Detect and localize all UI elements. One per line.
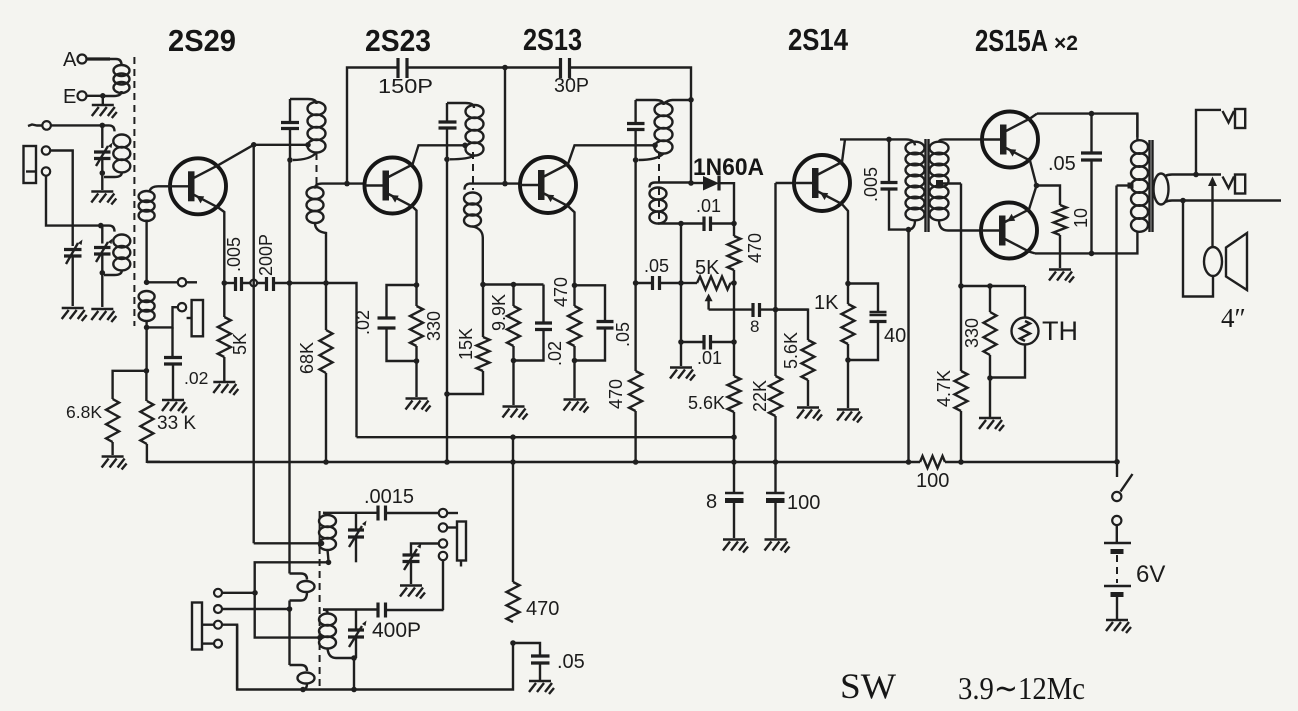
thermistor TH [1024, 286, 1026, 318]
node .01L left [678, 339, 684, 345]
capacitor .01 upper [681, 222, 704, 224]
IFT2 primary coil [466, 105, 484, 118]
emitter rail wire [224, 282, 235, 284]
node base coil tap [144, 280, 150, 286]
ground 5K [213, 382, 238, 395]
wire collector node [251, 142, 257, 148]
IFT1 top wire [290, 99, 317, 104]
resistor 22K [774, 310, 776, 376]
ground 100uF [765, 540, 790, 553]
trimmer capacitor on L3 [101, 226, 103, 244]
node .05 bottom [1089, 251, 1095, 257]
node 330 bottom [987, 375, 993, 381]
capacitor 8 coupling [753, 303, 760, 317]
node link to bottom bus [300, 687, 306, 693]
node pot right [731, 280, 737, 286]
node 15K top [480, 282, 486, 288]
transistor Q1 2S29 [170, 158, 226, 214]
wire 5K to ground [223, 357, 225, 381]
IFT3 top wire [636, 100, 664, 105]
svg-text:330: 330 [424, 311, 444, 341]
IFT3 secondary coil [650, 183, 656, 188]
mixer coil L3 [101, 226, 115, 232]
wire A corner into osc coil [254, 542, 322, 544]
resistor 5.6K (base) [776, 310, 809, 340]
node bus 470 [633, 459, 639, 465]
T1 core [926, 139, 929, 232]
IFT2 core dashed [472, 152, 474, 190]
wire battery to ground [1116, 597, 1118, 619]
node emitter 2S23 [414, 282, 420, 288]
resistor 4.7K [960, 286, 962, 371]
resistor 10 [1054, 205, 1067, 235]
bottom return bus [237, 625, 513, 690]
svg-text:.05: .05 [613, 322, 633, 347]
capacitor 40 bypass [848, 284, 878, 313]
wire 22K to bus [774, 416, 776, 462]
node tap line [958, 283, 964, 289]
resistor 470 (AGC feed) [629, 371, 642, 411]
svg-text:.02: .02 [545, 341, 565, 366]
node 330 bottom [414, 358, 420, 364]
node rail joint [688, 97, 694, 103]
node T1 bottom [906, 227, 912, 233]
osc switch wafer right [457, 522, 466, 561]
vertical B IFT1 to oscillator [288, 160, 290, 574]
svg-text:.01: .01 [696, 196, 721, 216]
bus wire left [147, 461, 920, 463]
svg-text:8: 8 [706, 491, 717, 513]
IFT2 top wire [447, 103, 474, 108]
node L5 bottom [351, 655, 357, 661]
wire to 6.8K [113, 371, 147, 399]
wire 5.6K to ground [807, 380, 809, 406]
RF coil L2 [109, 125, 115, 131]
secondary top lead [1165, 175, 1221, 177]
node bus 4.7K [958, 459, 964, 465]
node 30P drop at base [502, 181, 508, 187]
node L2 bottom [100, 170, 106, 176]
switch contact circle B3 [214, 621, 222, 629]
svg-text:4.7K: 4.7K [934, 370, 954, 407]
svg-text:×2: ×2 [1054, 32, 1078, 55]
wire load col down [733, 283, 735, 376]
node AVC [678, 280, 684, 286]
wire 10 to ground [1059, 235, 1061, 268]
wire coil bottom to bias node [145, 320, 147, 327]
lower AVC rail [357, 436, 735, 438]
emitter rail corner to lower rail [326, 283, 357, 437]
capacitor .05 output [1090, 114, 1092, 153]
node rail end [731, 434, 737, 440]
transistor Q3 2S13 [520, 157, 576, 213]
wire 4.7K to bus [960, 411, 962, 462]
wire 2S15A bases [958, 138, 982, 140]
wire 470 to bus [634, 411, 636, 462]
osc dashed core [319, 511, 321, 689]
node .01L right [731, 339, 737, 345]
node L5 to bottom bus [351, 687, 357, 693]
capacitor .02 (2S23 emitter) [387, 285, 417, 318]
IFT2 left leg with cap [446, 103, 448, 159]
resistor 5.6K (det) [728, 376, 741, 412]
connector coil to junction [450, 156, 475, 160]
svg-text:150P: 150P [378, 76, 433, 98]
node 9.9K bottom [511, 358, 517, 364]
IFT3 core dashed [658, 152, 660, 222]
transistor Q2 2S23 [365, 158, 421, 214]
ground .02 [162, 400, 187, 413]
jack contact circle 1 [42, 146, 50, 154]
node IFT2 junction [444, 157, 450, 163]
T2 center tap [1128, 183, 1134, 189]
diode D1 1N60A [691, 182, 703, 184]
T1 primary lead bottom [908, 220, 915, 229]
node RF input [100, 123, 106, 129]
svg-text:470: 470 [606, 379, 626, 409]
svg-text:2S15A: 2S15A [975, 23, 1048, 58]
svg-text:15K: 15K [456, 328, 476, 360]
feedback link loop 2 [290, 665, 308, 671]
wire collector to IFT1 [218, 145, 254, 166]
node 470 osc [510, 640, 516, 646]
svg-text:5.6K: 5.6K [688, 393, 725, 413]
wire 330 junction [989, 355, 991, 417]
ground 330 [406, 399, 431, 412]
capacitor 30P [561, 58, 570, 78]
node 68K top [323, 280, 329, 286]
pot wiper arrow [707, 298, 709, 310]
resistor 470 detector load [733, 224, 735, 237]
osc tuning gang [411, 544, 439, 556]
svg-text:.02: .02 [184, 368, 208, 388]
phone jack J1 [24, 146, 37, 183]
capacitor .02 (2S13 base) [542, 285, 544, 324]
capacitor .05 coupling [636, 282, 653, 284]
svg-text:100: 100 [916, 470, 949, 492]
wire IFT3 leg down [634, 160, 636, 371]
switch contact circle B2 [214, 605, 222, 613]
emitters join [1029, 161, 1037, 210]
ground 5.6K [797, 408, 822, 421]
svg-text:33 K: 33 K [157, 413, 196, 434]
switch contact circle S1b [178, 303, 186, 311]
node IFT1 junction [287, 157, 293, 163]
wire top rail left [347, 68, 398, 184]
node bus IFT2 [444, 459, 450, 465]
wire L4 bottom left [255, 562, 329, 637]
ground osc gang [400, 586, 425, 599]
wire lead-in to RF coil [51, 124, 109, 126]
node phones upper [1193, 172, 1199, 178]
svg-text:.005: .005 [861, 167, 881, 202]
earphone jack lower [1223, 177, 1235, 189]
wire to switch circle2 [222, 608, 290, 610]
node bus 68K [323, 459, 329, 465]
node emitters [1034, 183, 1040, 189]
ground 470 [564, 400, 589, 413]
IFT1 core dashed [316, 153, 318, 186]
T1 secondary winding [930, 142, 949, 155]
node .005 drop [886, 137, 892, 143]
IFT3 primary coil [655, 103, 673, 116]
switch wafer B [192, 603, 202, 650]
svg-text:.0015: .0015 [364, 486, 414, 508]
svg-text:.05: .05 [644, 256, 669, 276]
wire center tap down [960, 184, 962, 287]
potentiometer 5K volume [681, 282, 697, 284]
T2 primary winding [1131, 140, 1148, 154]
wire to ground L2 [101, 173, 103, 190]
T1 secondary lead top [939, 139, 958, 141]
wire jack c1 to tuning cap [50, 151, 72, 247]
wire emitters to 10 ohm [1037, 186, 1061, 206]
node L3 bottom [100, 270, 106, 276]
IFT3 left leg with cap [634, 100, 636, 160]
base coil upper (osc/ant secondary) [150, 186, 159, 191]
electrolytic 8uF [733, 462, 735, 493]
svg-text:1N60A: 1N60A [693, 154, 764, 181]
resistor 6.8K [106, 399, 119, 442]
ground tuning cap [62, 308, 87, 321]
node diode load top [731, 221, 737, 227]
resistor 33K [145, 371, 147, 401]
wire secondary to 2S13 base [469, 182, 520, 184]
switch contact circle B4 [214, 640, 222, 648]
node emitter [222, 280, 228, 286]
feedback link loop 1 [290, 574, 308, 580]
svg-text:5.6K: 5.6K [781, 332, 801, 369]
wire rail right [570, 68, 692, 100]
node mixer coil top [98, 223, 104, 229]
speaker voice coil [1204, 247, 1222, 276]
wire secondary bottom down [482, 238, 484, 285]
transistor Q6 2S15A lower [981, 203, 1037, 259]
ground .05 osc [529, 681, 554, 694]
resistor 1K [847, 284, 849, 305]
svg-text:.05: .05 [1048, 153, 1076, 175]
svg-text:68K: 68K [297, 342, 317, 374]
crossing marker osc line [250, 280, 257, 287]
wire cap to base node [760, 308, 809, 310]
wire 5.6K to AVC rail [733, 412, 735, 462]
node collector at coil [652, 143, 658, 149]
switch contact circle B1 [214, 589, 222, 597]
node at IFT3 leg [633, 280, 639, 286]
svg-text:100: 100 [787, 492, 820, 514]
node L4 bottom [326, 560, 332, 566]
IFT2 secondary coil [465, 184, 470, 190]
wire to switch contact S1b [147, 307, 178, 327]
transistor Q5 2S15A upper [982, 112, 1038, 168]
node rail to bus link [510, 434, 516, 440]
node bus 100uF [773, 459, 779, 465]
svg-text:22K: 22K [750, 380, 770, 412]
wire secondary top to diode node [655, 181, 691, 183]
capacitor .005 driver [888, 139, 890, 182]
node 470 bottom [572, 358, 578, 364]
svg-text:E: E [63, 86, 76, 108]
node speaker return [1180, 198, 1186, 204]
collector line to coil [254, 144, 308, 146]
svg-text:2S14: 2S14 [788, 22, 849, 57]
node osc coil tap [319, 541, 325, 547]
T1 secondary lead bottom [939, 220, 958, 230]
osc coil L4 [323, 513, 328, 516]
wire tap line to TH [961, 285, 1025, 287]
ground at E [92, 105, 117, 118]
wire to upper jack [1196, 110, 1221, 175]
IFT1 primary coil [308, 102, 326, 115]
node circle1 link [252, 590, 258, 596]
ground L2 [91, 192, 116, 205]
speaker cone [1226, 233, 1247, 290]
svg-text:9.9K: 9.9K [489, 294, 509, 331]
connector coil to junction [293, 153, 317, 161]
wire circle3 down to bottom bus [222, 625, 237, 690]
wire speaker return [1183, 201, 1213, 297]
wire base divider top [483, 283, 544, 285]
osc switch circles right [439, 509, 447, 517]
svg-text:470: 470 [745, 233, 765, 263]
wire diode to load [719, 183, 734, 223]
wire 1K to ground [847, 344, 849, 408]
wire to ground 470 [573, 346, 575, 398]
wire circle4 to 400P line [442, 560, 444, 610]
antenna lead-in wire [28, 125, 42, 127]
node IFT3 junction [633, 157, 639, 163]
wire to ground 9.9K [512, 346, 514, 405]
capacitor .05 (2S13 emitter) [575, 285, 606, 321]
node 2S14 base divider [773, 307, 779, 313]
node at vertical B [287, 280, 293, 286]
svg-text:470: 470 [551, 277, 571, 307]
wire drop to 2S13 base [504, 68, 506, 184]
ground 10 [1049, 270, 1074, 283]
wire IFT2 leg down to bus [446, 159, 448, 462]
node 9.9K top [511, 282, 517, 288]
IFT1 left leg with cap [289, 99, 291, 160]
svg-text:2S13: 2S13 [523, 22, 582, 57]
ground 1K [837, 410, 862, 423]
svg-text:5K: 5K [230, 333, 250, 355]
node coil bottom [144, 325, 150, 331]
ground 9.9K [503, 407, 528, 420]
transistor Q4 2S14 [794, 155, 850, 211]
wire emitter down [413, 207, 417, 285]
IFT1 secondary coil [315, 184, 322, 189]
node .01 left [678, 221, 684, 227]
T2 core [1150, 140, 1153, 232]
wire collector to transformer [842, 139, 845, 162]
wafer tick to B4 [202, 642, 214, 644]
capacitor .02 (2S29 base) [171, 327, 173, 357]
capacitor .005 (emitter) [236, 277, 242, 291]
top rail to output transformer [1037, 114, 1137, 137]
wire collector to top rail [1030, 114, 1037, 119]
wire to switch circle1 [222, 592, 255, 594]
wire bias node down [145, 327, 147, 370]
T1 primary winding [906, 142, 925, 155]
capacitor IFT2 [439, 122, 457, 128]
svg-text:330: 330 [962, 318, 982, 348]
wire collector to IFT3 [568, 145, 655, 164]
battery 6V [1104, 542, 1131, 544]
node 150P drop [344, 181, 350, 187]
wire emitter down [568, 206, 575, 285]
tuning gang capacitor [64, 250, 82, 257]
svg-text:A: A [63, 49, 77, 71]
node bus osc [510, 459, 516, 465]
ground TH [979, 418, 1004, 431]
wire 6.8K to ground [111, 442, 113, 455]
wire L5 bottom [336, 658, 354, 690]
wire coil to contact row [145, 220, 147, 283]
svg-text:30P: 30P [554, 75, 589, 97]
open circle on lead-in [42, 121, 51, 130]
wire emitter down [218, 207, 224, 283]
svg-text:.05: .05 [557, 651, 585, 673]
svg-text:10: 10 [1071, 208, 1091, 228]
svg-text:2S29: 2S29 [168, 23, 236, 58]
svg-text:1K: 1K [814, 292, 839, 314]
wire lower collector to bottom rail [1029, 252, 1035, 254]
wire base to coil [158, 185, 170, 187]
ground L3 [91, 309, 116, 322]
resistor 330 [989, 286, 991, 312]
svg-text:.005: .005 [224, 237, 244, 272]
secondary bottom lead [1165, 201, 1281, 203]
switch contact circle S1a [178, 278, 186, 286]
base coil lower [139, 291, 155, 302]
node circle2 link [287, 606, 293, 612]
svg-text:TH: TH [1042, 316, 1078, 346]
svg-text:4″: 4″ [1221, 303, 1246, 333]
wire 15K bottom to IFT2 leg [447, 371, 483, 394]
wire emitter down [842, 204, 848, 283]
node 15K link [444, 391, 450, 397]
svg-text:.02: .02 [353, 310, 373, 335]
wire 200P to IFT1 leg [274, 282, 327, 284]
ground 8uF [723, 540, 748, 553]
wire 68K to bus [325, 373, 327, 462]
svg-text:3.9∼12Mc: 3.9∼12Mc [958, 670, 1085, 706]
resistor 68K [325, 283, 327, 330]
svg-text:.01: .01 [697, 348, 722, 368]
capacitor IFT1 [281, 123, 299, 129]
svg-text:SW: SW [840, 666, 896, 706]
wire E to coil bottom [87, 95, 105, 97]
ground detector [670, 368, 695, 381]
wire E node to ground [102, 96, 104, 105]
bottom rail to output transformer [1035, 232, 1137, 254]
connector coil to junction [639, 154, 664, 161]
wire between caps [242, 282, 267, 284]
node bus T1 [906, 459, 912, 465]
vertical A collector to oscillator [252, 145, 254, 544]
jack switch arrow [1211, 185, 1213, 247]
T1 primary lead top [906, 139, 915, 145]
node emitter 2S13 [572, 283, 578, 289]
node bus 8uF [731, 459, 737, 465]
switch wafer [192, 300, 203, 336]
resistor 100 in bus [920, 456, 945, 468]
node bias divider [144, 368, 150, 374]
ground 6.8K [102, 457, 127, 470]
svg-text:8: 8 [750, 317, 759, 336]
wire wiper to coupling cap [709, 308, 753, 310]
resistor 5K emitter [223, 283, 225, 317]
